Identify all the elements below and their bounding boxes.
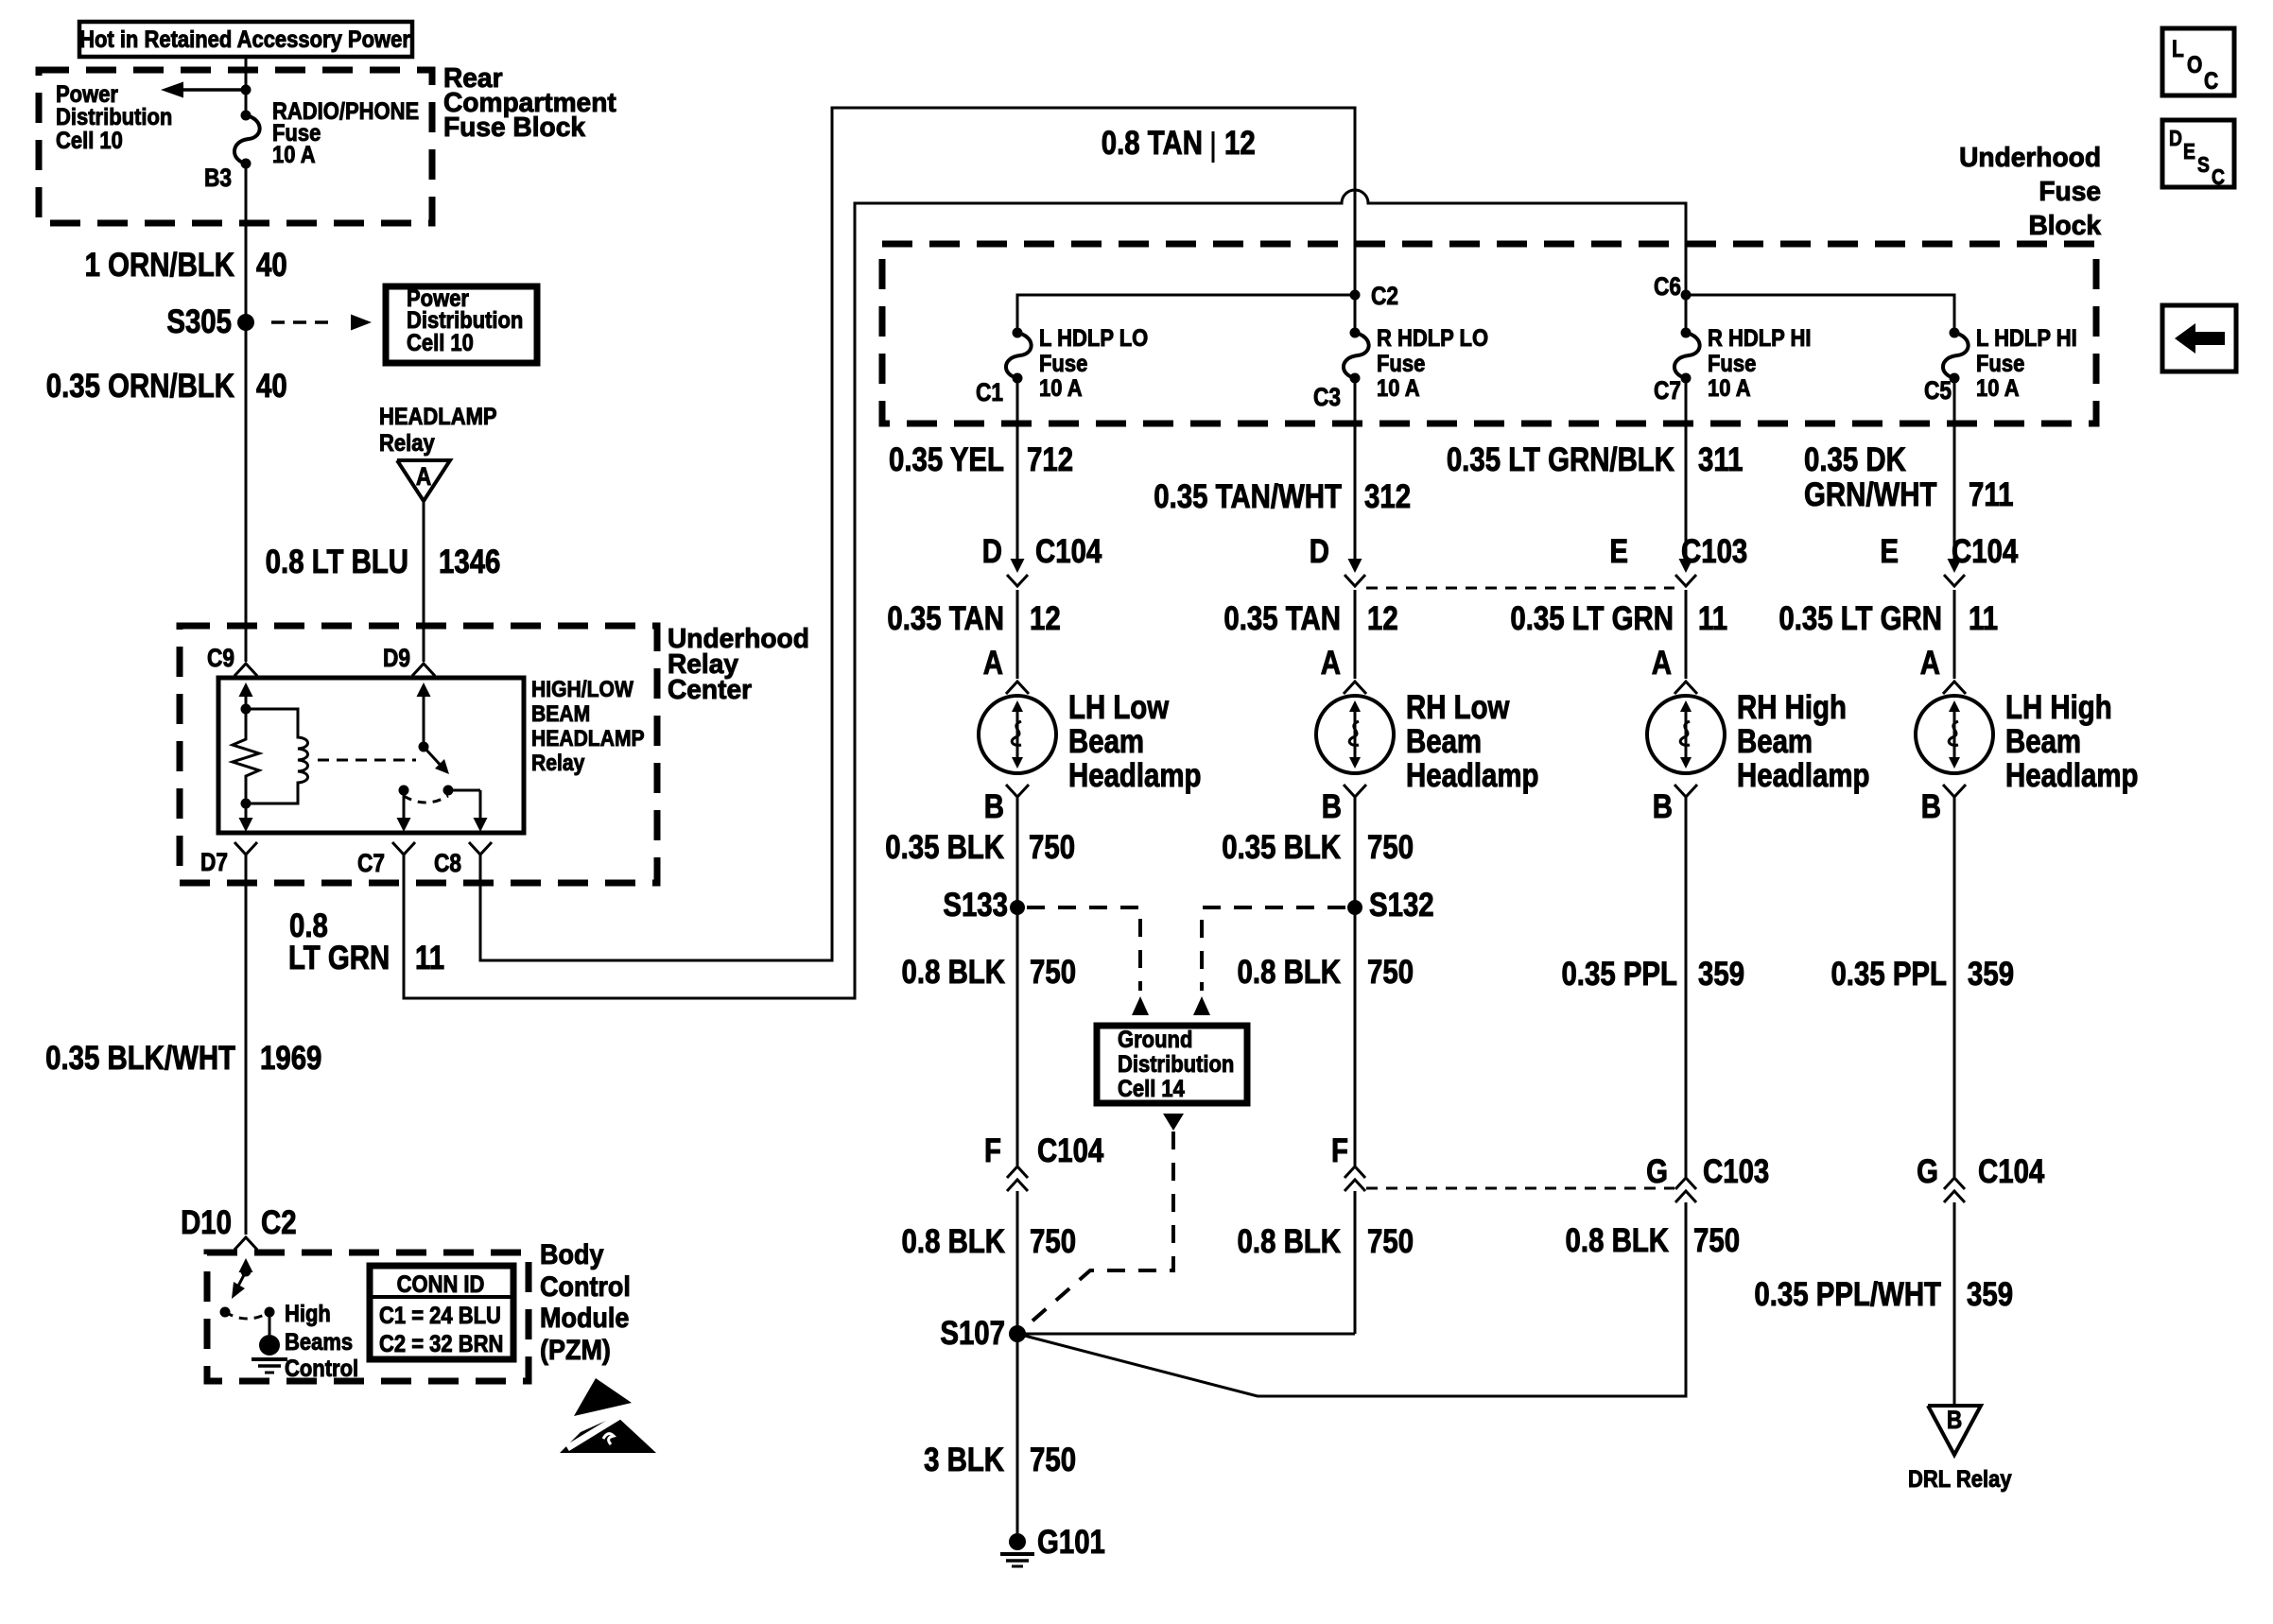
svg-text:F: F	[984, 1132, 1001, 1169]
svg-text:G101: G101	[1037, 1524, 1105, 1561]
svg-text:LT GRN: LT GRN	[288, 940, 390, 976]
svg-text:B: B	[1947, 1406, 1962, 1434]
svg-text:S133: S133	[943, 887, 1008, 924]
svg-text:RH High: RH High	[1737, 689, 1847, 726]
svg-text:High: High	[285, 1301, 331, 1327]
svg-text:Beams: Beams	[285, 1329, 353, 1356]
svg-text:C104: C104	[1037, 1132, 1103, 1169]
svg-text:Cell 14: Cell 14	[1118, 1076, 1185, 1102]
svg-text:Cell 10: Cell 10	[56, 128, 123, 154]
svg-text:HEADLAMP: HEADLAMP	[531, 726, 645, 752]
svg-text:10 A: 10 A	[1708, 375, 1751, 402]
svg-text:E: E	[1609, 533, 1628, 570]
svg-text:HIGH/LOW: HIGH/LOW	[531, 677, 634, 702]
svg-text:S107: S107	[940, 1315, 1005, 1352]
svg-text:D10: D10	[181, 1204, 232, 1241]
svg-text:Headlamp: Headlamp	[1406, 757, 1538, 794]
svg-text:B: B	[984, 788, 1004, 825]
svg-text:C6: C6	[1654, 272, 1681, 301]
svg-text:750: 750	[1030, 954, 1076, 991]
svg-text:C1: C1	[976, 378, 1003, 406]
svg-text:C5: C5	[1924, 376, 1952, 405]
svg-text:C8: C8	[434, 849, 461, 877]
svg-text:Relay: Relay	[379, 430, 435, 457]
svg-text:O: O	[2187, 51, 2202, 78]
svg-text:A: A	[416, 462, 431, 491]
svg-text:C2: C2	[261, 1204, 297, 1241]
svg-text:3 BLK: 3 BLK	[924, 1442, 1005, 1478]
svg-text:0.8 BLK: 0.8 BLK	[1566, 1222, 1670, 1259]
svg-text:Beam: Beam	[1068, 723, 1144, 760]
svg-text:C1 = 24 BLU: C1 = 24 BLU	[379, 1303, 501, 1329]
svg-text:Module: Module	[540, 1303, 629, 1335]
svg-text:S305: S305	[166, 303, 232, 340]
svg-text:C103: C103	[1681, 533, 1747, 570]
svg-text:Block: Block	[2028, 211, 2101, 241]
svg-text:359: 359	[1967, 1276, 2013, 1313]
svg-text:0.8 LT BLU: 0.8 LT BLU	[266, 544, 408, 580]
svg-text:Beam: Beam	[1737, 723, 1813, 760]
svg-text:D7: D7	[200, 848, 228, 876]
svg-text:711: 711	[1969, 476, 2013, 513]
svg-text:Control: Control	[285, 1356, 358, 1382]
svg-text:Headlamp: Headlamp	[1737, 757, 1869, 794]
svg-text:0.35 BLK: 0.35 BLK	[885, 829, 1004, 866]
svg-text:0.35 BLK: 0.35 BLK	[1222, 829, 1341, 866]
svg-text:40: 40	[256, 368, 287, 405]
svg-text:G: G	[1646, 1153, 1668, 1190]
svg-text:Body: Body	[540, 1239, 604, 1271]
svg-text:10 A: 10 A	[272, 142, 316, 168]
svg-text:Fuse: Fuse	[2039, 177, 2101, 207]
svg-text:11: 11	[1969, 600, 1998, 637]
svg-text:LH High: LH High	[2005, 689, 2112, 726]
svg-text:Cell 10: Cell 10	[407, 330, 474, 356]
svg-text:D9: D9	[383, 644, 410, 672]
svg-text:HEADLAMP: HEADLAMP	[379, 404, 497, 430]
svg-text:Fuse: Fuse	[1976, 351, 2024, 377]
svg-text:A: A	[1321, 645, 1341, 682]
svg-text:10 A: 10 A	[1976, 375, 2020, 402]
svg-text:10 A: 10 A	[1377, 375, 1420, 402]
svg-text:B: B	[1653, 788, 1673, 825]
svg-text:11: 11	[415, 940, 444, 976]
svg-text:311: 311	[1698, 441, 1743, 478]
svg-text:C104: C104	[1035, 533, 1102, 570]
svg-text:L HDLP HI: L HDLP HI	[1976, 325, 2077, 352]
svg-text:A: A	[983, 645, 1003, 682]
svg-text:Fuse Block: Fuse Block	[443, 112, 585, 143]
svg-text:C3: C3	[1313, 383, 1341, 411]
svg-text:C7: C7	[357, 849, 385, 877]
svg-text:1 ORN/BLK: 1 ORN/BLK	[85, 247, 235, 284]
svg-text:G: G	[1917, 1153, 1938, 1190]
svg-text:0.8 BLK: 0.8 BLK	[1238, 954, 1342, 991]
svg-text:B: B	[1322, 788, 1342, 825]
svg-text:0.35 LT GRN/BLK: 0.35 LT GRN/BLK	[1447, 441, 1675, 478]
svg-text:E: E	[2183, 141, 2195, 164]
svg-text:A: A	[1920, 645, 1940, 682]
svg-text:1346: 1346	[439, 544, 500, 580]
svg-text:0.8 BLK: 0.8 BLK	[902, 1223, 1006, 1260]
svg-text:750: 750	[1367, 829, 1414, 866]
svg-text:Distribution: Distribution	[1118, 1051, 1234, 1078]
svg-text:359: 359	[1968, 956, 2014, 993]
svg-text:B3: B3	[204, 164, 232, 192]
svg-text:750: 750	[1030, 1442, 1076, 1478]
svg-text:L HDLP LO: L HDLP LO	[1039, 325, 1148, 352]
svg-text:C7: C7	[1654, 376, 1681, 405]
svg-text:C104: C104	[1952, 533, 2018, 570]
svg-text:Headlamp: Headlamp	[2005, 757, 2138, 794]
svg-text:Center: Center	[668, 675, 752, 705]
svg-text:Distribution: Distribution	[56, 104, 172, 130]
svg-text:RH Low: RH Low	[1406, 689, 1510, 726]
svg-text:12: 12	[1224, 125, 1256, 162]
svg-text:C2 = 32 BRN: C2 = 32 BRN	[379, 1331, 503, 1357]
svg-text:Headlamp: Headlamp	[1068, 757, 1201, 794]
svg-text:0.8 BLK: 0.8 BLK	[1238, 1223, 1342, 1260]
svg-text:0.35 PPL/WHT: 0.35 PPL/WHT	[1754, 1276, 1941, 1313]
svg-text:Fuse: Fuse	[1377, 351, 1425, 377]
svg-text:0.35 BLK/WHT: 0.35 BLK/WHT	[45, 1040, 235, 1077]
svg-text:DRL Relay: DRL Relay	[1908, 1466, 2012, 1493]
svg-text:GRN/WHT: GRN/WHT	[1804, 476, 1937, 513]
svg-text:312: 312	[1364, 478, 1411, 515]
svg-text:359: 359	[1698, 956, 1744, 993]
svg-text:Fuse: Fuse	[1039, 351, 1087, 377]
svg-text:0.35 DK: 0.35 DK	[1804, 441, 1906, 478]
svg-text:E: E	[1880, 533, 1899, 570]
svg-text:750: 750	[1367, 1223, 1414, 1260]
svg-text:C104: C104	[1978, 1153, 2044, 1190]
svg-text:40: 40	[256, 247, 287, 284]
svg-text:0.35 PPL: 0.35 PPL	[1561, 956, 1677, 993]
svg-text:0.35 ORN/BLK: 0.35 ORN/BLK	[46, 368, 235, 405]
svg-text:1969: 1969	[260, 1040, 321, 1077]
svg-text:11: 11	[1698, 600, 1727, 637]
svg-text:Beam: Beam	[2005, 723, 2081, 760]
svg-text:L: L	[2172, 35, 2184, 61]
svg-text:D: D	[2169, 128, 2182, 151]
svg-text:750: 750	[1029, 829, 1075, 866]
svg-text:C103: C103	[1703, 1153, 1769, 1190]
svg-text:Hot in Retained Accessory Powe: Hot in Retained Accessory Power	[79, 26, 410, 53]
svg-text:0.35 TAN/WHT: 0.35 TAN/WHT	[1154, 478, 1342, 515]
svg-text:Control: Control	[540, 1271, 631, 1304]
svg-text:LH Low: LH Low	[1068, 689, 1170, 726]
svg-text:0.35 PPL: 0.35 PPL	[1831, 956, 1947, 993]
svg-text:R HDLP HI: R HDLP HI	[1708, 325, 1812, 352]
svg-text:0.35 TAN: 0.35 TAN	[887, 600, 1004, 637]
svg-text:C: C	[2212, 166, 2225, 190]
svg-text:R HDLP LO: R HDLP LO	[1377, 325, 1488, 352]
svg-text:Beam: Beam	[1406, 723, 1482, 760]
svg-text:Fuse: Fuse	[1708, 351, 1756, 377]
svg-text:Underhood: Underhood	[1959, 143, 2101, 173]
svg-text:A: A	[1652, 645, 1672, 682]
svg-text:(PZM): (PZM)	[540, 1335, 611, 1367]
svg-text:0.8 BLK: 0.8 BLK	[902, 954, 1006, 991]
svg-text:S132: S132	[1369, 887, 1434, 924]
svg-text:0.35 YEL: 0.35 YEL	[889, 441, 1004, 478]
svg-text:CONN ID: CONN ID	[397, 1271, 485, 1298]
svg-text:F: F	[1331, 1132, 1348, 1169]
svg-text:C2: C2	[1371, 282, 1398, 310]
svg-text:S: S	[2197, 154, 2210, 178]
svg-text:0.35 LT GRN: 0.35 LT GRN	[1510, 600, 1674, 637]
svg-text:Ground: Ground	[1118, 1027, 1192, 1053]
svg-text:BEAM: BEAM	[531, 701, 590, 727]
svg-text:750: 750	[1693, 1222, 1740, 1259]
svg-text:12: 12	[1367, 600, 1398, 637]
svg-text:C9: C9	[207, 644, 234, 672]
svg-text:750: 750	[1030, 1223, 1076, 1260]
svg-text:B: B	[1921, 788, 1941, 825]
svg-text:712: 712	[1027, 441, 1073, 478]
svg-text:D: D	[982, 533, 1002, 570]
svg-text:Relay: Relay	[531, 751, 585, 776]
svg-text:0.35 TAN: 0.35 TAN	[1223, 600, 1341, 637]
svg-text:12: 12	[1030, 600, 1061, 637]
svg-text:0.8 TAN: 0.8 TAN	[1102, 125, 1203, 162]
svg-text:0.35 LT GRN: 0.35 LT GRN	[1778, 600, 1942, 637]
svg-text:10 A: 10 A	[1039, 375, 1083, 402]
svg-text:750: 750	[1367, 954, 1414, 991]
svg-text:C: C	[2204, 67, 2218, 94]
svg-text:D: D	[1310, 533, 1329, 570]
